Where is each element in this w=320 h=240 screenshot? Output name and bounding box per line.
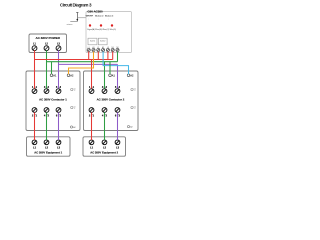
wire receiver pin3 red stub <box>97 52 99 60</box>
svg-text:↓: ↓ <box>108 18 109 21</box>
receiver pin labels <box>88 46 119 49</box>
equipment M1 terminal L3 <box>56 140 61 150</box>
wire purple drop to contactor2 L3 <box>117 64 119 88</box>
wire red drop to contactor2 L1 <box>91 60 93 89</box>
wire yellow receiver pin2 to contactor1 coil A2 <box>69 52 94 75</box>
wire purple contactor1 T3 to equipment1 <box>58 112 60 140</box>
antenna lead to receiver <box>78 17 86 19</box>
wire red contactor2 T1 to equipment2 <box>91 112 93 140</box>
svg-text:AC 380V Equipment 2: AC 380V Equipment 2 <box>90 151 118 155</box>
equipment M2 terminal L3 <box>115 140 120 150</box>
wire green bus <box>47 61 118 63</box>
contactor K1 coil terminal A2 bottom <box>70 126 76 129</box>
wire receiver pin1 red stub <box>88 52 90 60</box>
contactor K1 output terminal 2/T1 <box>32 108 38 118</box>
contactor K2 output terminal 4/T2 <box>102 108 108 118</box>
svg-text:Button 2: Button 2 <box>95 15 104 18</box>
wire receiver pin5 red stub <box>107 52 109 60</box>
wire red contactor1 T1 to equipment1 <box>34 112 36 140</box>
antenna lead left <box>70 21 77 23</box>
contactor K2 output terminal 2/T1 <box>89 108 95 118</box>
contactor K2 box <box>84 71 139 131</box>
contactor K1 input terminal 1/L1 <box>32 85 38 94</box>
receiver terminal pin 4 <box>102 48 105 51</box>
switch S1 <box>88 38 97 45</box>
contactor K1 aux contact NO top <box>71 88 77 92</box>
svg-text:AC 380V Contactor 2: AC 380V Contactor 2 <box>97 98 125 102</box>
contactor K2 coil terminal A1 <box>109 74 116 77</box>
antenna base <box>77 19 79 21</box>
svg-text:Signal(A) Wire-(B) Wire-(C): Signal(A) Wire-(B) Wire-(C) Wire(D) <box>87 28 116 31</box>
power terminal L2 <box>44 43 49 51</box>
wire receiver pin7 green stub <box>117 52 119 62</box>
contactor K1 input terminal 3/L2 <box>44 85 50 94</box>
equipment M2 box <box>83 137 126 156</box>
wire L1 red vertical power to contactor1 <box>34 50 36 88</box>
receiver terminal pin 1 <box>87 48 119 51</box>
equipment M2 terminal L2 <box>102 140 107 150</box>
svg-text:14: 14 <box>74 108 76 110</box>
svg-text:AC 380V POWER: AC 380V POWER <box>36 36 61 40</box>
wire green drop into K2 coil A1 <box>109 62 111 74</box>
svg-text:Circuit Diagram 3: Circuit Diagram 3 <box>60 2 92 7</box>
svg-text:14: 14 <box>134 108 136 110</box>
wire green contactor1 T2 to equipment1 <box>46 112 48 140</box>
contactor K2 input terminal 3/L2 <box>102 85 108 94</box>
contactor K2 input terminal 5/L3 <box>115 85 121 94</box>
wire green drop to contactor2 L2 <box>104 62 106 89</box>
power terminal L1 <box>32 43 37 51</box>
receiver box U1 G90 AC380 <box>86 12 132 53</box>
receiver terminal pin 7 <box>116 48 119 51</box>
contactor K1 input terminal 5/L3 <box>56 85 62 94</box>
contactor K1 output terminal 4/T2 <box>44 108 50 118</box>
antenna mast <box>76 13 78 22</box>
wire red bus <box>35 59 113 61</box>
wire L3 purple vertical power to contactor1 <box>58 50 60 88</box>
contactor K2 coil terminal A2 bottom <box>127 126 133 129</box>
receiver terminal pin 2 <box>92 48 95 51</box>
contactor K1 coil terminal A1 <box>50 74 57 77</box>
power box AC 380V POWER <box>29 34 67 53</box>
wire receiver pin6 red stub <box>112 52 114 60</box>
equipment M1 terminal L1 <box>32 140 37 150</box>
receiver terminal pin 3 <box>97 48 100 51</box>
contactor K1 aux contact NO bottom <box>71 106 77 110</box>
contactor K2 aux contact NO top <box>131 88 137 92</box>
contactor K2 aux contact NO bottom <box>131 106 137 110</box>
svg-text:↓: ↓ <box>88 18 89 21</box>
svg-text:13: 13 <box>134 90 136 92</box>
equipment M1 box <box>27 137 71 156</box>
wire L2 green vertical power to contactor1 <box>46 50 48 88</box>
receiver terminal pin 6 <box>111 48 114 51</box>
svg-text:G90 AC380: G90 AC380 <box>87 9 103 13</box>
contactor K1 box <box>26 71 80 131</box>
svg-text:↓: ↓ <box>99 18 100 21</box>
contactor K2 input terminal 1/L1 <box>89 85 95 94</box>
contactor K1 output terminal 6/T3 <box>56 108 62 118</box>
equipment M1 terminal L2 <box>44 140 49 150</box>
power terminal L3 <box>56 43 61 51</box>
wire green contactor2 T2 to equipment2 <box>104 112 106 140</box>
contactor K1 coil terminal A2 <box>67 74 74 77</box>
wire purple bus <box>59 63 118 65</box>
svg-text:AC 380V Contactor 1: AC 380V Contactor 1 <box>39 98 67 102</box>
wire green drop into K1 coil A1 <box>51 62 53 74</box>
wire purple contactor2 T3 to equipment2 <box>117 112 119 140</box>
svg-text:AC 380V Equipment 1: AC 380V Equipment 1 <box>34 151 62 155</box>
contactor K2 output terminal 6/T3 <box>115 108 121 118</box>
contactor K2 coil terminal A2 <box>127 74 134 77</box>
svg-text:Button 3: Button 3 <box>105 15 114 18</box>
LED D2 <box>100 24 102 26</box>
equipment M2 terminal L1 <box>89 140 94 150</box>
LED D3 <box>111 24 113 26</box>
wire blue receiver pin4 to contactor2 coil A2 <box>103 52 128 75</box>
svg-text:13: 13 <box>74 90 76 92</box>
svg-text:WIFI/RF: WIFI/RF <box>86 16 94 18</box>
receiver terminal pin 5 <box>106 48 109 51</box>
LED D1 <box>89 24 91 26</box>
switch S2 <box>98 38 107 45</box>
